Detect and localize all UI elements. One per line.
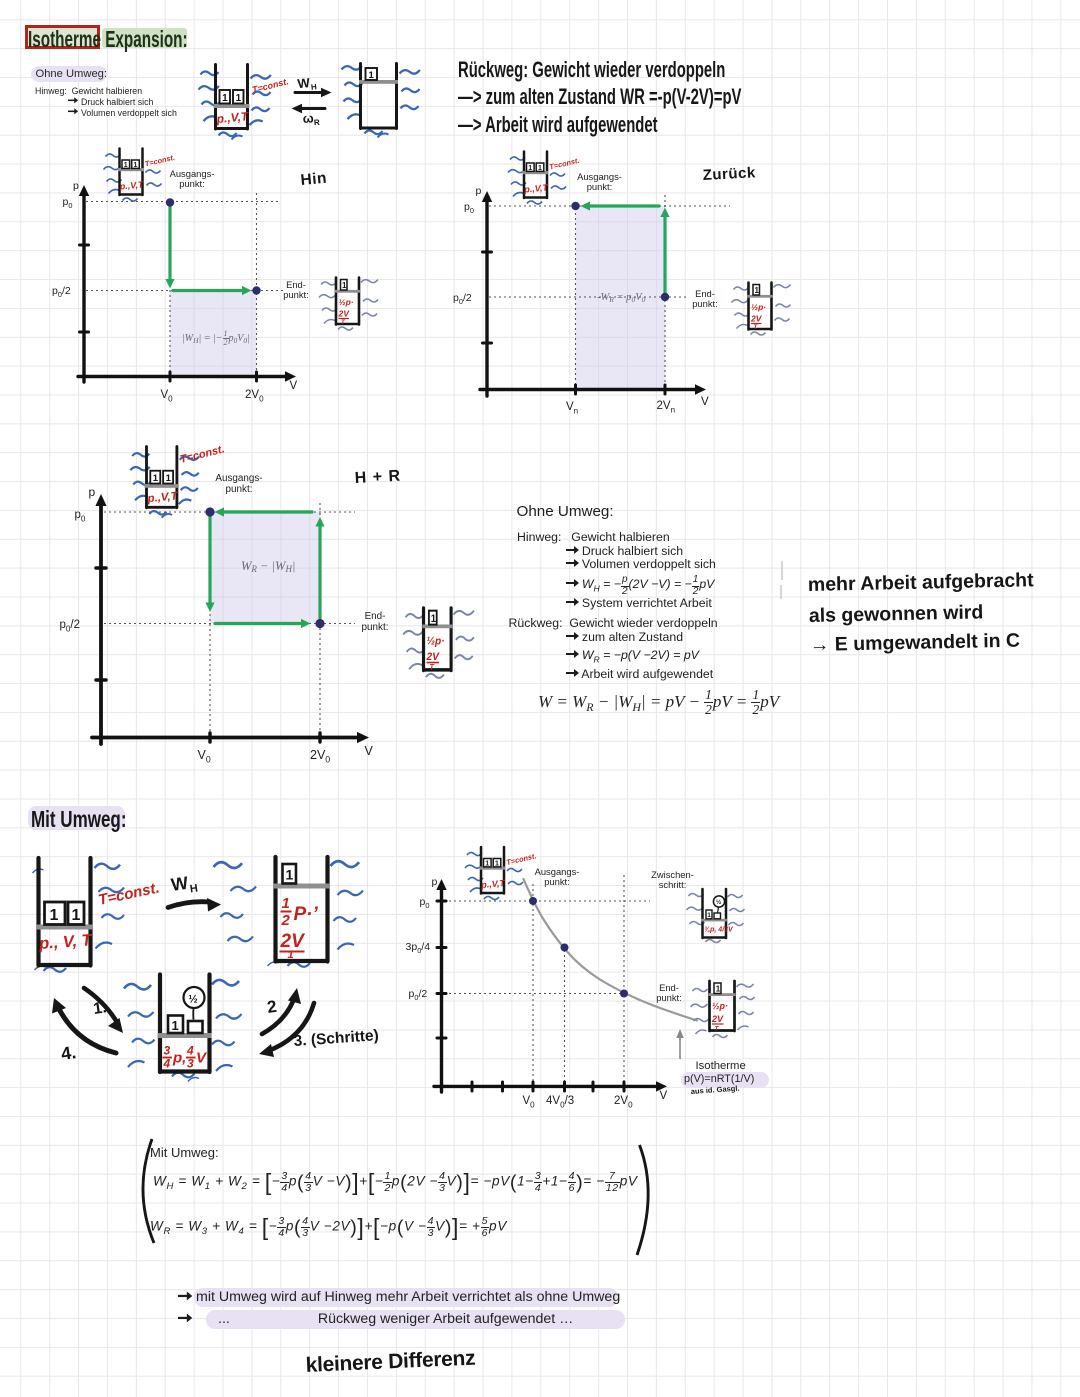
handwritten label W_H (Mit Umweg): [170, 872, 199, 898]
handwritten note: -> E umgewandelt in C: [810, 630, 1021, 656]
backward work arrow W_R top sketch: [298, 107, 325, 110]
svg-text:1: 1: [707, 912, 711, 919]
svg-text:H + R: H + R: [354, 468, 401, 487]
axis ticks diagram 3: [96, 568, 320, 742]
handwritten label 2: [266, 997, 278, 1017]
axis ticks diagram 2: [483, 252, 666, 394]
vessel start state at diagram 2: [508, 152, 580, 205]
handwritten note: als gewonnen wird: [809, 601, 984, 627]
big start vessel (Mit Umweg): [33, 858, 162, 972]
handwritten label W_R top sketch: [302, 110, 320, 128]
dashed lines diagram 4: [444, 875, 650, 1084]
curved arrow step 1: [84, 988, 118, 1024]
axis arrowheads diagram 4: [436, 879, 667, 1092]
title text "Isotherme Expansion:": [28, 26, 188, 53]
svg-text:4: 4: [163, 1057, 171, 1071]
svg-text:1: 1: [282, 895, 290, 912]
svg-text:T=const.: T=const.: [97, 879, 161, 909]
curved arrow step 2: [262, 996, 295, 1034]
vessel intermediate state at diagram 4 (Zwischenschritt): [687, 889, 745, 943]
svg-text:3: 3: [187, 1057, 194, 1071]
big end vessel (Mit Umweg): [214, 857, 364, 967]
axis arrowheads diagram 1: [79, 185, 296, 382]
svg-text:3: 3: [164, 1044, 171, 1058]
svg-text:2: 2: [266, 997, 278, 1017]
svg-text:2: 2: [281, 912, 291, 929]
svg-text:½: ½: [189, 994, 198, 1006]
vessel end state at diagram 4: [691, 981, 755, 1038]
svg-text:T=const.: T=const.: [179, 443, 226, 466]
vessel expanded state top sketch (no labels): [342, 64, 420, 138]
big W formula: [538, 688, 779, 717]
svg-text:→ E umgewandelt in C: → E umgewandelt in C: [810, 630, 1021, 656]
svg-text:1: 1: [50, 907, 59, 924]
handwritten word Zurueck: [702, 164, 756, 184]
handwritten label 4.: [60, 1042, 78, 1064]
shaded work area W_R: [576, 206, 666, 390]
axes diagram 4: [434, 887, 658, 1092]
vessel start state top sketch: [199, 65, 271, 140]
handwritten note: mehr Arbeit aufgebracht: [808, 569, 1035, 596]
big left parenthesis: [143, 1139, 154, 1243]
handwritten label 3. (Schritte): [293, 1027, 379, 1050]
state dots diagram 4: [529, 897, 628, 998]
svg-text:1: 1: [286, 867, 294, 883]
svg-text:Hin: Hin: [300, 170, 328, 189]
svg-text:1: 1: [369, 70, 375, 81]
vessel start state at diagram 3: [130, 447, 199, 518]
state dots diagram 3: [205, 507, 324, 628]
svg-text:1: 1: [72, 907, 81, 924]
green process arrows diagram 1: [170, 207, 243, 291]
shaded loop area: [210, 512, 320, 624]
svg-text:4: 4: [186, 1044, 194, 1058]
axes diagram 3: [92, 502, 360, 744]
svg-text:1: 1: [288, 949, 294, 961]
svg-text:1: 1: [172, 1018, 179, 1033]
svg-text:1: 1: [716, 985, 721, 994]
pill "Ohne Umweg:": [31, 66, 107, 82]
svg-text:V: V: [196, 1050, 208, 1067]
thick work arrow W_H (Mit Umweg): [168, 902, 210, 908]
vessel end state at diagram 2: [732, 283, 791, 336]
svg-text:R: R: [314, 118, 321, 127]
svg-text:Zurück: Zurück: [702, 164, 756, 184]
state dots diagram 2: [571, 202, 669, 301]
green process arrows diagram 2: [589, 206, 665, 293]
svg-text:W: W: [170, 873, 190, 895]
vessel end state at diagram 3: [403, 608, 474, 678]
svg-text:kleinere Differenz: kleinere Differenz: [305, 1347, 476, 1377]
title green highlight "Expansion:": [102, 28, 187, 48]
forward work arrow W_H top sketch: [295, 91, 324, 94]
svg-text:p,: p,: [172, 1050, 186, 1067]
axis ticks diagram 1: [80, 245, 257, 381]
middle intermediate vessel (Mit Umweg): [124, 975, 242, 1082]
curved arrow step 3: [268, 1003, 314, 1051]
svg-text:p., V, T: p., V, T: [38, 931, 95, 953]
svg-text:¾p, 4/3V: ¾p, 4/3V: [704, 927, 734, 934]
axes diagram 2: [480, 199, 698, 396]
handwritten label W_H top sketch: [297, 74, 318, 93]
vessel start state at diagram 1: [104, 149, 176, 202]
shaded work area W_H: [170, 291, 257, 376]
svg-text:1.: 1.: [92, 999, 108, 1018]
arrow pointing to isotherme curve: [679, 1033, 681, 1059]
svg-text:2V: 2V: [711, 1014, 724, 1024]
svg-text:mehr Arbeit aufgebracht: mehr Arbeit aufgebracht: [808, 569, 1035, 596]
handwritten note under isotherme label: [691, 1084, 740, 1096]
dashed level line p0: [86, 193, 283, 375]
handwritten T=const label diagram 3: [179, 443, 226, 466]
handwritten word Hin: [300, 170, 328, 189]
axis arrowheads diagram 3: [95, 494, 369, 743]
bottom highlighted conclusion lines: [194, 1288, 618, 1307]
right header: Rueckweg condensed block: [458, 56, 741, 139]
svg-text:H: H: [189, 882, 199, 895]
dashed lines diagram 3: [104, 503, 355, 735]
svg-text:½: ½: [716, 898, 722, 906]
handwritten label 1.: [92, 999, 108, 1018]
axes diagram 1: [78, 193, 288, 382]
big right parenthesis: [637, 1145, 648, 1255]
green loop arrowheads diagram 3: [205, 507, 324, 628]
svg-text:3. (Schritte): 3. (Schritte): [293, 1027, 379, 1050]
handwritten kleinere Differenz: [305, 1347, 476, 1377]
pill "Mit Umweg:" heading: [28, 806, 125, 830]
svg-text:als gewonnen wird: als gewonnen wird: [809, 601, 984, 627]
vessel start state at diagram 4: [465, 847, 537, 900]
|W_H| formula inside shaded area: [182, 330, 250, 348]
faint pencil mark: [781, 561, 782, 599]
axis arrowheads diagram 2: [482, 191, 706, 395]
Hinweg bullet list top-left: [35, 86, 177, 119]
axis ticks diagram 4: [437, 901, 624, 1091]
vessel end state at diagram 1: [319, 278, 378, 331]
svg-text:P·’: P·’: [294, 904, 319, 925]
svg-text:aus id. Gasgl.: aus id. Gasgl.: [691, 1084, 740, 1096]
svg-text:W: W: [297, 75, 311, 91]
title red box around "Isotherme": [25, 25, 101, 49]
svg-text:½p·: ½p·: [712, 1001, 728, 1011]
svg-text:4.: 4.: [60, 1042, 78, 1064]
handwritten T=const label top sketch: [251, 76, 290, 95]
svg-text:H: H: [311, 82, 318, 92]
state dots diagram 1: [166, 198, 261, 294]
green process loop diagram 3: [210, 512, 320, 624]
dashed lines diagram 2: [489, 195, 730, 388]
handwritten label H + R: [354, 468, 401, 487]
curved arrow step 4: [58, 1007, 116, 1053]
svg-text:ω: ω: [302, 110, 314, 126]
isotherme curve: [524, 879, 698, 1021]
